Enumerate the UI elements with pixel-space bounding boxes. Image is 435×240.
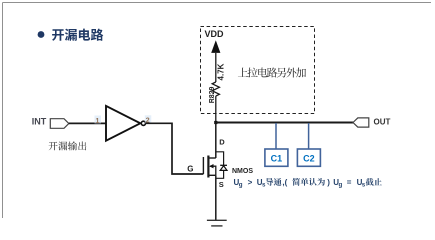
- svg-text:g: g: [239, 182, 243, 189]
- svg-text:4.7K: 4.7K: [217, 63, 226, 80]
- svg-text:D: D: [219, 138, 225, 147]
- svg-text:,(: ,(: [282, 178, 287, 187]
- svg-text:C1: C1: [271, 154, 283, 164]
- svg-text:C2: C2: [303, 154, 315, 164]
- svg-text:=: =: [347, 178, 352, 187]
- svg-text:INT: INT: [32, 116, 47, 126]
- svg-text:1: 1: [96, 118, 100, 125]
- svg-text:g: g: [339, 182, 343, 189]
- svg-text:R829: R829: [209, 86, 216, 103]
- svg-text:s: s: [362, 181, 366, 188]
- svg-text:s: s: [262, 181, 266, 188]
- svg-text:OUT: OUT: [374, 118, 391, 127]
- svg-text:NMOS: NMOS: [232, 168, 253, 175]
- svg-text:G: G: [187, 164, 193, 173]
- svg-text:>: >: [248, 178, 253, 187]
- svg-text:VDD: VDD: [205, 29, 225, 39]
- svg-text:S: S: [219, 180, 224, 189]
- svg-text:): ): [327, 178, 330, 187]
